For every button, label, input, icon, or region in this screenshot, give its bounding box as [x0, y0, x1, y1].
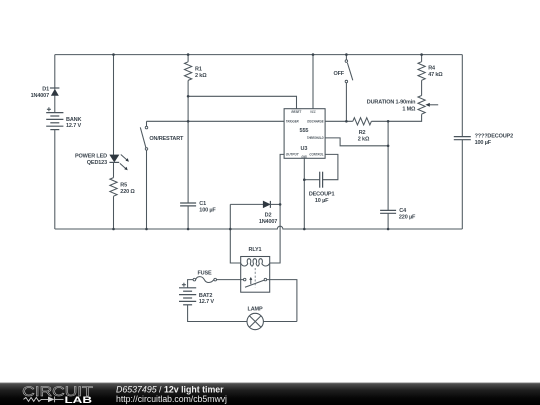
wire trigger line (switch to 555 TRIGGER) [147, 120, 285, 122]
wire top power rail [55, 54, 463, 56]
resistor R5 [110, 178, 117, 197]
svg-text:D2: D2 [265, 213, 272, 219]
svg-text:12.7 V: 12.7 V [66, 123, 81, 129]
node ground rail / C1 [187, 228, 190, 231]
relay switch right pin wire [267, 280, 297, 322]
node discharge line / OFF [345, 120, 348, 123]
svg-text:TRIGGER: TRIGGER [286, 120, 299, 124]
node ground rail / C4 [387, 228, 390, 231]
wire R1 branch from top rail [187, 55, 189, 62]
potentiometer DURATION 1-90min 1M [418, 96, 438, 115]
wire D2 anode horizontal [230, 203, 263, 205]
svg-text:BAT2: BAT2 [199, 293, 212, 299]
node ground rail / GND [303, 228, 306, 231]
node ground rail / ON-RESTART [145, 228, 148, 231]
svg-text:LAB: LAB [65, 395, 93, 405]
capacitor DECOUP2 [454, 137, 471, 140]
node ground rail / D2 branch [229, 228, 232, 231]
fuse FUSE [193, 277, 216, 283]
node threshold / C4 branch [387, 145, 390, 148]
wire R4 branch from top rail [421, 55, 423, 62]
wire left rail upper (top rail to D1 cathode) [54, 55, 56, 88]
relay actuator dashed line [254, 268, 256, 287]
wire discharge line (555 to R2) [325, 120, 353, 122]
battery BANK [46, 107, 63, 129]
wire GND pin to ground rail [303, 158, 305, 229]
capacitor DECOUP1 [304, 172, 322, 188]
wire C4 branch [387, 121, 389, 210]
svg-text:CONTROL: CONTROL [309, 152, 324, 156]
svg-text:POWER LED: POWER LED [75, 154, 107, 160]
resistor R1 [185, 62, 192, 81]
svg-text:http://circuitlab.com/cb5mwvj: http://circuitlab.com/cb5mwvj [116, 394, 227, 404]
LED POWER LED QED123 [109, 155, 128, 171]
svg-text:DISCHARGE: DISCHARGE [307, 120, 324, 124]
svg-text:2 kΩ: 2 kΩ [195, 73, 207, 79]
svg-text:1 MΩ: 1 MΩ [402, 107, 416, 113]
svg-text:OFF: OFF [333, 71, 344, 77]
node top rail / OFF [345, 53, 348, 56]
capacitor C1 [180, 203, 196, 206]
wire D2 anode / relay coil left branch [230, 204, 240, 263]
node junction dots [112, 53, 423, 230]
wire C4 to ground rail [387, 213, 389, 229]
node top rail / VCC [312, 53, 315, 56]
op-amp/IC U1: 555 timer U3 box [284, 109, 325, 159]
node top rail / LED [112, 53, 115, 56]
svg-text:VCC: VCC [310, 110, 316, 114]
lamp LAMP [247, 313, 263, 329]
svg-text:R2: R2 [359, 130, 366, 136]
svg-text:DECOUP1: DECOUP1 [309, 192, 335, 198]
FOOTER [0, 383, 540, 405]
wire R4 to potentiometer [421, 80, 423, 95]
battery BAT2 [179, 283, 196, 305]
resistor R2 [353, 118, 372, 125]
svg-text:220 µF: 220 µF [399, 215, 416, 221]
capacitor C4 [380, 210, 396, 213]
svg-text:C1: C1 [199, 201, 206, 207]
wire R2 to pot bottom [371, 114, 421, 121]
switch ON/RESTART [140, 121, 147, 229]
wire THRESHOLD run [325, 138, 388, 146]
relay RLY1 [217, 257, 297, 322]
wire D1 anode to battery [54, 96, 56, 113]
node ground rail / LED [112, 228, 115, 231]
wire VCC to top rail [312, 55, 314, 109]
relay switch left pin wire [217, 279, 244, 281]
node discharge line / C4 branch [387, 120, 390, 123]
diode D1 [50, 88, 60, 96]
relay switch lever [245, 280, 264, 287]
svg-text:555: 555 [300, 128, 309, 134]
resistor R4 [418, 62, 425, 81]
svg-text:THRESHOLD: THRESHOLD [307, 136, 324, 140]
svg-text:100 µF: 100 µF [475, 140, 492, 146]
svg-text:1N4007: 1N4007 [31, 93, 49, 99]
node GND wire / DECOUP1 [303, 178, 306, 181]
svg-text:QED123: QED123 [87, 160, 107, 166]
svg-text:????DECOUP2: ????DECOUP2 [475, 134, 513, 140]
wire lamp right to relay [263, 321, 297, 323]
wire R5 to ground rail [113, 196, 115, 229]
wire RESET run [188, 96, 296, 108]
svg-text:2 kΩ: 2 kΩ [358, 136, 370, 142]
svg-text:10 µF: 10 µF [315, 198, 329, 204]
wire OUTPUT run down to relay coil right [270, 154, 284, 263]
svg-text:RLY1: RLY1 [249, 247, 262, 253]
wire battery BANK to ground rail [54, 130, 56, 229]
svg-text:ON/RESTART: ON/RESTART [149, 136, 184, 142]
relay arrow [250, 280, 252, 285]
switch OFF [345, 55, 353, 122]
wire LED branch from top rail [113, 55, 115, 155]
svg-text:BANK: BANK [66, 117, 81, 123]
node RESET / R1 [187, 95, 190, 98]
wire LED to R5 [113, 162, 115, 177]
node trigger line / R1-C1 [187, 120, 190, 123]
wire DECOUP2 to ground rail [461, 140, 463, 229]
svg-text:U3: U3 [301, 146, 308, 152]
svg-text:1N4007: 1N4007 [259, 219, 277, 225]
svg-text:12.7 V: 12.7 V [199, 299, 214, 305]
svg-text:R4: R4 [428, 66, 436, 72]
svg-text:OUTPUT: OUTPUT [286, 153, 299, 157]
relay coil [241, 259, 270, 266]
svg-text:DURATION 1-90min: DURATION 1-90min [367, 99, 416, 105]
wire right rail upper (top rail to DECOUP2) [461, 55, 463, 137]
svg-text:47 kΩ: 47 kΩ [428, 72, 443, 78]
svg-text:D1: D1 [42, 87, 49, 93]
wire CONTROL run [323, 154, 338, 179]
wire fuse left to battery BAT2 [188, 280, 194, 288]
svg-text:R5: R5 [120, 183, 127, 189]
svg-text:220 Ω: 220 Ω [120, 189, 135, 195]
svg-text:100 µF: 100 µF [199, 207, 216, 213]
svg-text:LAMP: LAMP [248, 307, 263, 313]
node top rail / R4 [420, 53, 423, 56]
node D2 cathode / output wire [279, 203, 282, 206]
wire battery BAT2 to lamp [188, 305, 247, 322]
svg-text:RESET: RESET [291, 110, 301, 114]
wire bottom ground rail (with hop over output wire at x=280) [55, 226, 463, 229]
svg-text:R1: R1 [195, 67, 202, 73]
relay switch terminals [243, 278, 246, 281]
wire R1 to C1 (through junctions) [187, 80, 189, 203]
svg-text:FUSE: FUSE [197, 271, 212, 277]
svg-text:C4: C4 [399, 208, 407, 214]
node top rail / R1 [187, 53, 190, 56]
wire C1 to ground rail [187, 206, 189, 229]
diode D2 1N4007 [263, 201, 280, 208]
